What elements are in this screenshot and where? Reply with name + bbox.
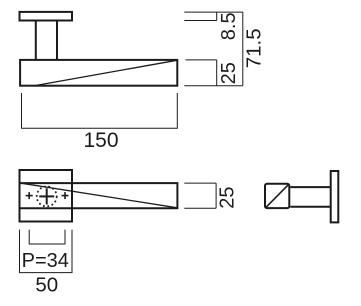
svg-text:50: 50: [35, 274, 58, 297]
lever taper line plan view: [22, 183, 177, 208]
spindle hole dotted circle: [37, 186, 57, 206]
svg-text:150: 150: [83, 129, 118, 152]
svg-text:P=34: P=34: [22, 250, 69, 272]
dimension line 71.5: [242, 12, 244, 86]
lever end view square: [265, 184, 289, 208]
extension line top of rose: [184, 11, 243, 13]
dimension bracket P=34: [29, 230, 65, 244]
dimension line 8.5: [216, 12, 218, 20]
lever body side view: [20, 60, 177, 86]
lever end view diagonal: [266, 185, 289, 208]
neck bottom line end view: [290, 206, 330, 208]
svg-text:71.5: 71.5: [242, 28, 265, 68]
extension line lever top: [186, 59, 217, 61]
dimension bracket 150: [22, 93, 178, 128]
handle neck left line side view: [35, 21, 37, 60]
hidden rose edge dotted: [71, 185, 73, 208]
svg-text:25: 25: [218, 62, 240, 84]
dimension bracket 50: [20, 230, 73, 273]
lever body plan view: [20, 183, 178, 208]
rose plate end view: [331, 171, 339, 222]
neck top line end view: [290, 186, 330, 188]
extension line bottom of rose: [184, 20, 216, 22]
svg-text:25: 25: [216, 186, 238, 208]
crosshair horizontal: [39, 195, 54, 197]
rose plate plan view: [20, 170, 73, 222]
dimension line 25 side view: [216, 60, 218, 86]
dimension line 25 plan view: [215, 183, 217, 208]
rose plate side view: [20, 12, 73, 21]
extension line lever bottom plan: [184, 207, 216, 209]
svg-text:8.5: 8.5: [218, 12, 240, 40]
crosshair vertical: [46, 188, 48, 204]
handle neck right line side view: [56, 21, 58, 60]
right screw mark: [62, 195, 69, 197]
left screw mark: [26, 195, 33, 197]
extension line lever bottom: [184, 85, 243, 87]
extension line lever top plan: [184, 182, 216, 184]
lever taper line side view: [34, 60, 177, 86]
